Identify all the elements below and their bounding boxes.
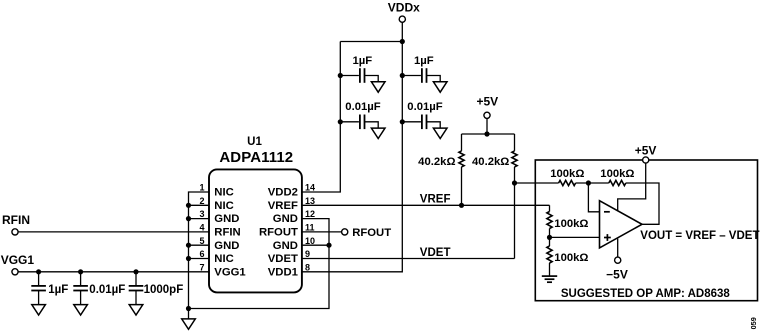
ground	[371, 128, 385, 138]
svg-text:3: 3	[199, 209, 204, 219]
wire net VREF from pin 13	[302, 204, 550, 206]
wire +5V horizontal	[462, 133, 515, 135]
resistor 100k to ground	[547, 246, 552, 263]
svg-text:VDET: VDET	[420, 247, 451, 259]
wire pin 11 to RFOUT terminal	[302, 231, 342, 233]
svg-text:1: 1	[199, 183, 204, 193]
op-amp AD8638 triangle	[600, 201, 643, 248]
ground	[371, 82, 385, 92]
svg-text:RFOUT: RFOUT	[352, 227, 391, 239]
svg-text:9: 9	[305, 249, 310, 259]
capacitor 0.01uF right rail	[402, 121, 421, 123]
svg-text:GND: GND	[214, 240, 239, 252]
junction node on rail	[338, 119, 343, 124]
node VREF pullup junction	[459, 203, 464, 208]
svg-text:VDET: VDET	[268, 253, 298, 265]
svg-text:5: 5	[199, 236, 204, 246]
wire cap to ground	[38, 291, 40, 305]
ground	[433, 82, 447, 92]
wire +5V stem	[486, 118, 488, 134]
svg-text:VOUT = VREF – VDET: VOUT = VREF – VDET	[640, 230, 759, 242]
wire right VDD rail to pin 8 VDD1	[302, 42, 402, 272]
ground	[32, 305, 46, 315]
svg-text:100kΩ: 100kΩ	[554, 252, 588, 264]
resistor 100k to noninverting input	[547, 212, 552, 229]
svg-text:NIC: NIC	[214, 200, 233, 212]
capacitor 1uF VGG1	[38, 272, 40, 286]
resistor 100k inverting input	[559, 180, 576, 185]
node bus junction pin 3	[186, 216, 191, 221]
earth ground	[542, 275, 557, 277]
wire between 100k resistors	[576, 182, 609, 184]
wire left VDD rail to pin 14 VDD2	[302, 42, 340, 193]
wire cap to ground	[365, 76, 379, 82]
wire cap to ground	[365, 122, 379, 128]
ground	[433, 128, 447, 138]
node bus junction pin 2	[186, 203, 191, 208]
svg-text:1µF: 1µF	[353, 55, 373, 67]
node VDET pullup junction	[512, 180, 517, 185]
resistor 40.2k right (VDET pullup)	[514, 134, 516, 151]
svg-text:14: 14	[305, 183, 315, 193]
wire VDDx horizontal	[340, 41, 402, 43]
wire cap to ground	[427, 76, 441, 82]
svg-text:NIC: NIC	[214, 253, 233, 265]
svg-text:11: 11	[305, 223, 315, 233]
wire +5V supply to op-amp	[618, 163, 646, 211]
wire RFIN to pin 4	[18, 231, 209, 233]
wire pin 6 to ground bus	[189, 258, 210, 260]
svg-text:RFOUT: RFOUT	[259, 227, 298, 239]
capacitor 1000pF VGG1	[135, 272, 137, 286]
capacitor 1uF left rail	[340, 75, 359, 77]
svg-text:U1: U1	[247, 136, 262, 148]
wire left ground bus from pin 1	[189, 192, 210, 309]
svg-text:RFIN: RFIN	[214, 227, 240, 239]
capacitor 0.01uF left rail	[340, 121, 359, 123]
wire VDET node to input resistor	[515, 182, 559, 184]
svg-text:100kΩ: 100kΩ	[550, 168, 584, 180]
ground main	[182, 319, 196, 329]
junction node on rail	[338, 73, 343, 78]
resistor 40.2k left (VREF pullup)	[461, 134, 463, 151]
svg-text:40.2kΩ: 40.2kΩ	[418, 156, 455, 168]
svg-text:GND: GND	[273, 240, 298, 252]
svg-text:SUGGESTED OP AMP: AD8638: SUGGESTED OP AMP: AD8638	[561, 288, 731, 300]
resistor 100k feedback	[609, 180, 626, 185]
junction node on rail	[400, 73, 405, 78]
capacitor 1uF right rail	[402, 75, 421, 77]
wire pin 10 GND to riser	[302, 244, 329, 246]
wire VREF into divider	[549, 205, 551, 211]
svg-text:4: 4	[199, 223, 204, 233]
svg-text:0.01µF: 0.01µF	[89, 284, 125, 296]
terminal RFOUT	[342, 229, 348, 235]
svg-text:40.2kΩ: 40.2kΩ	[472, 156, 509, 168]
svg-text:VDD2: VDD2	[268, 187, 298, 199]
svg-text:0.01µF: 0.01µF	[407, 101, 442, 113]
wire bus to ground symbol	[188, 309, 190, 319]
svg-text:059: 059	[749, 317, 758, 329]
node VDDx tee	[400, 39, 405, 44]
op-amp suggestion box	[535, 160, 757, 301]
svg-text:−5V: −5V	[606, 268, 628, 282]
svg-text:NIC: NIC	[214, 187, 233, 199]
op-amp minus sign	[604, 211, 610, 213]
svg-text:VDDx: VDDx	[388, 0, 420, 14]
wire pin 2 to ground bus	[189, 204, 210, 206]
svg-text:100kΩ: 100kΩ	[600, 168, 634, 180]
svg-text:1000pF: 1000pF	[144, 284, 184, 296]
svg-text:0.01µF: 0.01µF	[345, 101, 380, 113]
svg-text:VREF: VREF	[268, 200, 298, 212]
svg-text:12: 12	[305, 209, 315, 219]
node noninverting divider junction	[547, 235, 552, 240]
junction node	[133, 269, 138, 274]
node bus junction pin 5	[186, 243, 191, 248]
svg-text:6: 6	[199, 249, 204, 259]
terminal -5V	[615, 257, 621, 263]
wire pin 5 to ground bus	[189, 244, 210, 246]
svg-text:13: 13	[305, 196, 315, 206]
junction node	[78, 269, 83, 274]
svg-text:1µF: 1µF	[414, 55, 434, 67]
IC U1 ADPA1112 body	[209, 169, 302, 292]
node ground bus bottom junction	[186, 306, 191, 311]
svg-text:2: 2	[199, 196, 204, 206]
svg-text:VREF: VREF	[420, 194, 451, 206]
wire VDDx stem	[401, 22, 403, 41]
wire inverting input	[588, 183, 599, 212]
svg-text:VGG1: VGG1	[1, 253, 35, 267]
capacitor 0.01uF VGG1	[80, 272, 82, 286]
svg-text:RFIN: RFIN	[2, 213, 30, 227]
junction node on rail	[400, 119, 405, 124]
wire VGG1 to pin 7	[18, 271, 209, 273]
svg-text:7: 7	[199, 262, 204, 272]
wire -5V supply from op-amp	[617, 239, 619, 258]
junction node	[36, 269, 41, 274]
svg-text:10: 10	[305, 236, 315, 246]
wire pin 3 to ground bus	[189, 218, 210, 220]
wire GND return pin 12	[189, 219, 330, 309]
node +5V tee	[484, 131, 489, 136]
svg-text:GND: GND	[273, 213, 298, 225]
svg-text:GND: GND	[214, 213, 239, 225]
wire cap to ground	[427, 122, 441, 128]
svg-text:8: 8	[305, 262, 310, 272]
svg-text:VDD1: VDD1	[268, 266, 298, 278]
wire cap to ground	[80, 291, 82, 305]
wire feedback to output	[626, 183, 659, 224]
ground	[74, 305, 88, 315]
wire VDET riser	[514, 183, 516, 259]
svg-text:VGG1: VGG1	[214, 266, 245, 278]
node pin 10 junction	[326, 243, 331, 248]
node bus junction pin 6	[186, 256, 191, 261]
svg-text:+5V: +5V	[635, 143, 657, 157]
op-amp plus sign	[604, 237, 611, 239]
wire net VDET from pin 9	[302, 258, 515, 260]
svg-text:1µF: 1µF	[48, 284, 68, 296]
svg-text:+5V: +5V	[476, 94, 498, 108]
wire cap to ground	[135, 291, 137, 305]
svg-text:ADPA1112: ADPA1112	[219, 149, 293, 166]
node inverting junction	[586, 180, 591, 185]
wire noninverting input	[550, 236, 600, 238]
ground	[129, 305, 143, 315]
svg-text:100kΩ: 100kΩ	[554, 218, 588, 230]
